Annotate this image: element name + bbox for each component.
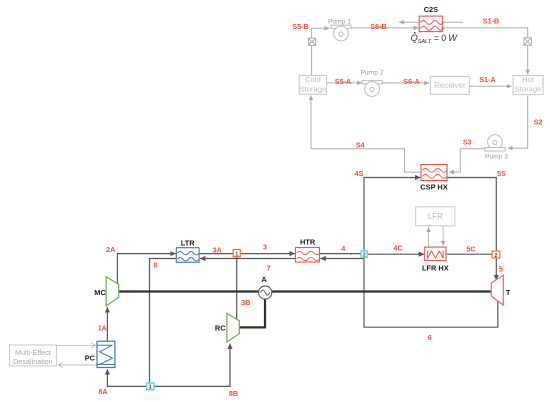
shaft RC to A — [239, 299, 265, 327]
svg-text:S1-A: S1-A — [479, 75, 495, 84]
svg-text:S1-B: S1-B — [483, 16, 499, 25]
svg-text:2A: 2A — [106, 245, 115, 254]
svg-text:S6-A: S6-A — [403, 77, 419, 86]
hot storage box — [513, 76, 543, 95]
wire S5-A cold storage to pump2 — [327, 82, 362, 84]
wire S1-A receiver to hot storage — [469, 85, 511, 87]
svg-text:6: 6 — [428, 333, 432, 342]
svg-text:S2: S2 — [534, 117, 543, 126]
svg-text:S4: S4 — [356, 140, 365, 149]
wire C2S top-left stub arrow — [399, 21, 419, 23]
valve V1 — [308, 38, 315, 45]
svg-text:Pump 1: Pump 1 — [328, 18, 351, 25]
wire S3 pump3 to CSP HX — [449, 149, 485, 172]
node S1 — [147, 383, 154, 391]
label Q_SALT = 0 W — [411, 32, 459, 45]
node S2 — [361, 251, 367, 259]
svg-text:RC: RC — [215, 324, 226, 333]
wire 1A PC to MC — [106, 307, 108, 341]
node M2 — [492, 251, 500, 259]
LFR connector down — [442, 226, 444, 246]
PC connector to MED — [58, 364, 97, 366]
svg-text:MC: MC — [94, 288, 106, 297]
svg-text:7: 7 — [267, 263, 271, 272]
svg-text:S6-B: S6-B — [370, 22, 386, 31]
cold storage box — [299, 75, 326, 94]
wire 7 to HTR — [320, 258, 364, 260]
wire 8 LTR to node 1 — [150, 259, 177, 384]
svg-text:3B: 3B — [241, 298, 250, 307]
svg-text:W: W — [448, 33, 458, 43]
svg-text:LFR HX: LFR HX — [422, 264, 449, 273]
svg-text:1A: 1A — [98, 324, 107, 333]
svg-text:Storage: Storage — [300, 84, 327, 93]
pump P2 — [362, 81, 382, 97]
svg-text:5: 5 — [499, 264, 503, 273]
shaft MC-A-T — [119, 290, 492, 292]
wire 5C LFR HX to node M2 — [446, 253, 492, 255]
compressor RC — [227, 313, 239, 342]
svg-text:2: 2 — [363, 253, 366, 259]
valve V2 — [524, 38, 531, 45]
MED connector to PC — [56, 344, 95, 346]
wire S2 hot storage to pump3 — [508, 96, 528, 148]
svg-text:S5-A: S5-A — [335, 77, 351, 86]
wire 3A LTR to node M1 — [199, 253, 233, 255]
svg-text:1: 1 — [149, 385, 152, 391]
wire 4 HTR to node S2 — [320, 253, 362, 255]
svg-text:8B: 8B — [229, 389, 238, 398]
svg-text:SALT: SALT — [418, 39, 432, 45]
svg-text:S5-B: S5-B — [292, 22, 308, 31]
node M1 — [233, 250, 240, 258]
CSP HX — [421, 165, 447, 181]
svg-text:5S: 5S — [497, 169, 506, 178]
wire 3B node M1 to RC — [236, 257, 238, 320]
svg-text:= 0: = 0 — [434, 33, 447, 43]
svg-text:HTR: HTR — [300, 238, 316, 247]
svg-text:Hot: Hot — [522, 75, 535, 84]
svg-text:4C: 4C — [393, 244, 402, 253]
svg-text:2: 2 — [495, 253, 498, 259]
wire 4S riser and to CSP HX — [364, 178, 420, 252]
wire 3 node M1 to HTR — [240, 253, 295, 255]
wire 5S CSP HX down to node M2 — [447, 178, 496, 252]
generator A — [259, 286, 272, 299]
svg-text:Cold: Cold — [305, 75, 321, 84]
svg-text:Receiver: Receiver — [434, 81, 466, 90]
wire S4 CSP HX to cold storage — [311, 95, 421, 172]
svg-text:C2S: C2S — [424, 5, 438, 14]
receiver box — [430, 76, 469, 94]
svg-text:5C: 5C — [466, 244, 475, 253]
compressor MC — [106, 277, 119, 306]
HTR recuperator — [296, 248, 320, 263]
svg-text:Multi-Effect: Multi-Effect — [15, 348, 51, 357]
LFR connector up — [428, 227, 430, 247]
wire C2S top-right stub — [442, 21, 463, 23]
pump P3 — [485, 135, 506, 151]
LFR HX — [425, 247, 446, 260]
svg-text:8A: 8A — [98, 387, 107, 396]
wire 5 node M2 to turbine — [495, 258, 497, 280]
wire 8B node 1 to RC — [154, 344, 230, 387]
wire 4C node S2 to LFR HX — [367, 253, 424, 255]
svg-text:Pump 3: Pump 3 — [485, 153, 508, 160]
pump P1 — [331, 25, 351, 41]
wire 8A node 1 to PC — [107, 369, 146, 386]
svg-text:LTR: LTR — [181, 238, 195, 247]
svg-text:4S: 4S — [355, 169, 364, 178]
svg-text:Storage: Storage — [515, 85, 542, 94]
svg-text:Desalination: Desalination — [13, 357, 53, 366]
wire S1-B to hot storage — [442, 28, 527, 75]
svg-text:A: A — [261, 275, 267, 284]
wire S5-B cold storage riser — [312, 28, 330, 76]
C2S heat exchanger — [419, 16, 443, 32]
svg-text:1: 1 — [235, 251, 238, 257]
wire 6 turbine exhaust — [364, 258, 498, 328]
svg-text:3: 3 — [263, 242, 267, 251]
svg-text:PC: PC — [85, 353, 96, 362]
precooler PC — [97, 341, 115, 367]
svg-text:8: 8 — [154, 260, 158, 269]
svg-text:S3: S3 — [463, 137, 472, 146]
svg-text:LFR: LFR — [428, 212, 443, 221]
svg-text:T: T — [506, 288, 511, 297]
wire 8 return HTR to LTR — [200, 258, 296, 260]
LTR recuperator — [176, 248, 199, 263]
wire S6-B pump1 to C2S — [351, 27, 419, 29]
svg-text:3A: 3A — [213, 245, 222, 254]
wire S6-A pump2 to receiver — [382, 82, 429, 84]
LFR box — [416, 207, 455, 226]
svg-text:CSP HX: CSP HX — [420, 183, 447, 192]
svg-text:Pump 2: Pump 2 — [360, 70, 383, 77]
MED box — [10, 345, 57, 366]
turbine T — [491, 275, 503, 305]
wire 2A MC to LTR — [117, 254, 175, 284]
svg-text:4: 4 — [341, 244, 345, 253]
